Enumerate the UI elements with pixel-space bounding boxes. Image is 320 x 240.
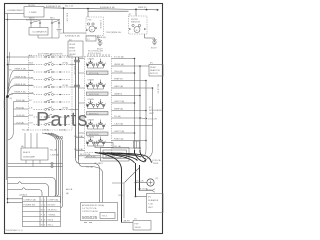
svg-text:REAR: REAR [69, 46, 75, 49]
svg-text:W-L (A): W-L (A) [22, 129, 29, 132]
svg-text:GADY (A): GADY (A) [114, 85, 123, 88]
svg-text:B-W 0.85: B-W 0.85 [73, 66, 75, 75]
svg-text:W-L/B (A): W-L/B (A) [74, 148, 83, 151]
svg-text:LK-B (A): LK-B (A) [16, 121, 24, 124]
svg-text:MOTOR: MOTOR [150, 73, 158, 75]
svg-text:AB-CA: AB-CA [66, 188, 73, 191]
svg-text:B-W 1.25: B-W 1.25 [66, 13, 68, 22]
svg-text:(P): (P) [149, 107, 152, 109]
svg-text:P/W: P/W [135, 224, 139, 226]
svg-text:(A): (A) [21, 145, 24, 148]
svg-text:UP DN: UP DN [88, 120, 95, 122]
svg-text:M: M [91, 29, 93, 31]
svg-text:RIGHT: RIGHT [150, 67, 157, 69]
svg-text:TURN: TURN [153, 163, 159, 165]
svg-text:(A): (A) [66, 192, 69, 195]
svg-text:ILLUMINATION: ILLUMINATION [33, 31, 48, 34]
svg-text:WIRE (F): WIRE (F) [138, 7, 147, 9]
svg-text:5 WIRE: 5 WIRE [29, 12, 37, 14]
svg-text:P-CTD (A): P-CTD (A) [114, 56, 124, 59]
svg-text:(D) POWER WINDOW SW: (D) POWER WINDOW SW [38, 54, 63, 56]
svg-text:MOTOR A: MOTOR A [89, 72, 99, 75]
svg-text:REAR-R (A): REAR-R (A) [15, 68, 26, 71]
svg-text:(A) GADY: (A) GADY [94, 162, 104, 165]
svg-text:COMECS (A): COMECS (A) [24, 199, 37, 202]
svg-text:W-L (A): W-L (A) [86, 166, 93, 169]
svg-text:(P): (P) [156, 178, 159, 180]
svg-text:CB(-): CB(-) [118, 195, 123, 197]
svg-text:(P): (P) [148, 197, 151, 199]
svg-text:505025: 505025 [82, 215, 98, 220]
svg-text:UP DN: UP DN [88, 59, 95, 61]
svg-text:LOCK (P): LOCK (P) [148, 119, 157, 121]
svg-text:RELAY: RELAY [69, 53, 76, 56]
svg-text:W-L 1.25: W-L 1.25 [65, 6, 74, 8]
svg-text:1-4 TVOT P-CA: 1-4 TVOT P-CA [82, 207, 97, 210]
svg-text:SIG-B: SIG-B [48, 220, 54, 222]
svg-text:LABACK: LABACK [114, 93, 123, 96]
svg-text:SMBP (A): SMBP (A) [114, 108, 123, 111]
svg-text:FR-B (A): FR-B (A) [16, 106, 24, 109]
svg-text:CADYT (A): CADYT (A) [114, 100, 125, 103]
svg-text:AB-PR: AB-PR [124, 220, 131, 223]
svg-text:BLACK: BLACK [23, 151, 31, 154]
svg-text:(P): (P) [129, 14, 132, 16]
svg-text:COMPARTMENT: COMPARTMENT [7, 9, 24, 12]
svg-text:(P): (P) [150, 63, 153, 65]
svg-text:M: M [41, 210, 43, 212]
svg-text:RIGHT: RIGHT [69, 44, 76, 46]
svg-text:MA-B (A): MA-B (A) [97, 36, 106, 39]
svg-text:UP DN: UP DN [88, 99, 95, 101]
svg-text:PHBP (P): PHBP (P) [114, 79, 123, 81]
svg-text:M: M [136, 30, 138, 32]
svg-text:WINDOW: WINDOW [131, 22, 140, 24]
svg-text:L-W: L-W [29, 77, 33, 79]
svg-text:SUBW-AMP: SUBW-AMP [23, 156, 36, 159]
svg-text:(T): (T) [134, 219, 137, 221]
svg-text:W: W [41, 225, 43, 227]
svg-text:1.25 B-W: 1.25 B-W [99, 20, 101, 29]
svg-text:MOTOR C: MOTOR C [89, 113, 99, 115]
svg-text:12V: 12V [60, 33, 64, 35]
svg-text:COMPT (A): COMPT (A) [48, 199, 59, 202]
svg-text:UNIT: UNIT [148, 207, 154, 209]
svg-text:INTEGRATED: INTEGRATED [149, 109, 163, 112]
svg-text:Parts: Parts [36, 109, 89, 131]
svg-text:RE.C: RE.C [50, 18, 55, 20]
svg-text:B-W/BLACK (A): B-W/BLACK (A) [100, 6, 115, 9]
svg-text:L-W/B (A): L-W/B (A) [50, 154, 59, 157]
svg-text:G-O: G-O [29, 70, 33, 72]
svg-text:W-L 1.25: W-L 1.25 [3, 100, 5, 109]
svg-text:W-B: W-B [29, 115, 34, 117]
svg-text:B-W/BLACK (A): B-W/BLACK (A) [65, 34, 80, 37]
svg-text:SIG-C: SIG-C [48, 225, 54, 227]
svg-text:W-R: W-R [29, 62, 34, 64]
svg-text:CP (A): CP (A) [62, 107, 68, 110]
svg-text:LK-W (A): LK-W (A) [16, 114, 25, 117]
svg-text:R-L (A): R-L (A) [114, 115, 121, 118]
svg-text:MOTOR D: MOTOR D [89, 134, 99, 136]
svg-text:FR-W (A): FR-W (A) [16, 99, 25, 102]
svg-text:REAR P.W: REAR P.W [150, 69, 160, 72]
svg-text:T-CA: T-CA [148, 203, 153, 206]
svg-text:L-W: L-W [9, 94, 13, 96]
svg-text:DOOR: DOOR [69, 51, 76, 53]
svg-text:L-R: L-R [29, 107, 33, 109]
svg-text:FOR-CA: FOR-CA [153, 159, 161, 162]
svg-text:TVPWCVT-A SW: TVPWCVT-A SW [82, 210, 98, 213]
svg-text:LATBK (A): LATBK (A) [114, 63, 124, 66]
svg-text:G-W: G-W [29, 92, 33, 94]
svg-text:R-BLK (A): R-BLK (A) [114, 138, 124, 141]
svg-text:CADYT (A): CADYT (A) [114, 130, 125, 133]
svg-text:CB-G (A): CB-G (A) [114, 70, 123, 73]
svg-text:W-L (A): W-L (A) [50, 149, 57, 152]
svg-text:FRONT: FRONT [131, 19, 139, 21]
svg-text:G-B (A): G-B (A) [59, 129, 66, 132]
svg-text:TEST(M)RE-CA: TEST(M)RE-CA [106, 31, 121, 34]
svg-text:BLT-CA: BLT-CA [137, 180, 145, 183]
svg-text:UP DN: UP DN [88, 80, 95, 82]
svg-text:CA (A) A: CA (A) A [19, 194, 27, 197]
svg-text:SUB/ASVE: SUB/ASVE [148, 199, 159, 202]
svg-text:G-R: G-R [29, 122, 33, 124]
svg-text:BODY: BODY [151, 48, 157, 50]
svg-text:SS (BOV): SS (BOV) [48, 210, 57, 212]
svg-text:CP (A): CP (A) [62, 84, 68, 87]
svg-text:(F): (F) [10, 98, 13, 100]
svg-text:4*30678/5866 1-3 Q: 4*30678/5866 1-3 Q [4, 230, 23, 232]
svg-text:RR DRV: RR DRV [48, 205, 56, 207]
svg-text:BAT.S: BAT.S [29, 17, 35, 20]
svg-text:REAR-F (A): REAR-F (A) [15, 91, 26, 94]
svg-text:B-W/BLACK (A): B-W/BLACK (A) [46, 5, 61, 8]
svg-text:CP (A): CP (A) [62, 62, 68, 65]
svg-text:APW-AVSSM FT-CA (A): APW-AVSSM FT-CA (A) [82, 204, 104, 207]
svg-text:REAR-B (A): REAR-B (A) [15, 83, 26, 86]
svg-text:P/W: P/W [88, 20, 92, 22]
svg-text:L-W (A): L-W (A) [42, 129, 49, 132]
svg-text:W-L/B (A): W-L/B (A) [74, 135, 83, 138]
svg-text:REAR-W (A): REAR-W (A) [15, 75, 27, 78]
svg-text:7 WINDL: 7 WINDL [48, 215, 57, 217]
svg-text:MOTOR B: MOTOR B [89, 94, 99, 96]
svg-text:BODY: BODY [146, 190, 152, 192]
svg-text:TV3.5: TV3.5 [102, 216, 108, 218]
svg-text:UNIT: UNIT [149, 113, 155, 115]
svg-text:RC DYN BL-SW: RC DYN BL-SW [88, 51, 103, 53]
svg-text:AB-CA 0.5: AB-CA 0.5 [157, 84, 160, 94]
svg-text:POWER SW: POWER SW [24, 205, 36, 207]
svg-text:SSUM: SSUM [135, 227, 141, 229]
svg-text:L-BLK (A): L-BLK (A) [114, 123, 123, 126]
svg-text:UP DN: UP DN [88, 137, 95, 139]
svg-text:BLOCK (A): BLOCK (A) [80, 153, 91, 156]
